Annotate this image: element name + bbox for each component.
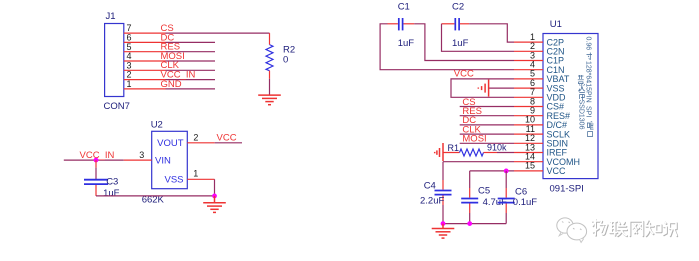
J1 pin 1 stub [124, 88, 166, 90]
wire C2 right to U1 pin1 [469, 24, 514, 42]
U1 pin 13 stub [514, 152, 543, 154]
J1 pin 3 stub [124, 69, 166, 71]
ground symbol below U2 [203, 196, 226, 213]
regulator U2 body [152, 131, 188, 188]
svg-text:910k: 910k [487, 143, 507, 153]
wire net DC to U1 [460, 124, 514, 126]
resistor R1 [460, 149, 498, 156]
capacitor C6 [498, 171, 515, 224]
junction dot at rail C4 [441, 221, 446, 226]
svg-text:0.96: 0.96 [585, 37, 592, 51]
svg-text:CON7: CON7 [104, 101, 130, 112]
capacitor C2 [442, 18, 470, 30]
svg-text:2.2uF: 2.2uF [420, 196, 444, 207]
svg-text:3: 3 [139, 150, 144, 160]
ground symbol at U1 VSS (pointing left) [478, 80, 488, 97]
svg-text:GND: GND [161, 79, 182, 90]
U2 pin 2 stub [187, 142, 214, 144]
U1 pin 15 stub [514, 170, 543, 172]
svg-text:VCC: VCC [547, 166, 567, 176]
wire ground rail under C4 C5 C6 [443, 223, 506, 225]
junction dot at C6 top [504, 169, 509, 174]
wire U1 VCC to C5 and C6 [470, 170, 514, 172]
svg-text:VSS: VSS [164, 175, 183, 186]
wire net CS from J1 pin7 to R2 [166, 32, 270, 34]
U2 pin 1 stub [187, 178, 214, 180]
wire C3 bottom to VSS junction [96, 195, 215, 197]
U1 pin 11 stub [514, 133, 543, 135]
svg-text:C3: C3 [106, 176, 118, 187]
U1 pin 1 stub [514, 41, 543, 43]
wire net VCC to U1 VBAT and VDD [451, 79, 514, 97]
wire R2 to ground [269, 79, 271, 95]
junction dot at VSS ground node [212, 194, 217, 199]
svg-text:2: 2 [193, 133, 198, 143]
wire net MOSI [166, 60, 216, 62]
watermark text 物联网知识 (drawn as vector strokes) [593, 220, 678, 236]
U1 pin 14 stub [514, 161, 543, 163]
svg-text:1: 1 [193, 169, 198, 179]
wire net VCC at U2 output [215, 142, 242, 144]
wire net VCC_IN [166, 79, 216, 81]
wire U1 VSS to ground [489, 87, 514, 89]
U1 pin 8 stub [514, 106, 543, 108]
junction dot at C3 top [94, 158, 99, 163]
wire net RES to U1 [460, 115, 514, 117]
ground symbol at R1 (pointing left) [435, 143, 443, 161]
wire R1 to U1 IREF [497, 152, 514, 154]
svg-text:MOSI: MOSI [462, 134, 486, 145]
svg-text:SSD1306: SSD1306 [578, 100, 585, 130]
svg-text:C1: C1 [398, 1, 410, 12]
wire net MOSI to U1 [460, 142, 514, 144]
wire C2 left to U1 pin2 [442, 24, 515, 52]
U2 pin 3 stub [124, 159, 152, 161]
svg-text:R1: R1 [447, 143, 459, 153]
U1 comment text line 2 [578, 75, 586, 130]
svg-text:1uF: 1uF [398, 38, 415, 49]
wire net DC [166, 41, 216, 43]
J1 pin 5 stub [124, 51, 166, 53]
wire U1 VCOMH to C4 [443, 161, 514, 163]
svg-text:1uF: 1uF [103, 188, 120, 199]
U1 pin 2 stub [514, 50, 543, 52]
watermark chat-bubbles icon [557, 218, 587, 243]
connector J1 body [105, 24, 124, 97]
capacitor C4 [435, 162, 452, 224]
svg-text:15: 15 [525, 161, 535, 171]
svg-text:C5: C5 [478, 186, 490, 197]
svg-text:0.1uF: 0.1uF [513, 197, 537, 208]
svg-text:C6: C6 [515, 187, 527, 198]
J1 pin 6 stub [124, 41, 166, 43]
svg-text:1uF: 1uF [452, 38, 469, 49]
J1 pin 2 stub [124, 79, 166, 81]
IC U1 body [543, 34, 598, 179]
ground symbol below rail [432, 224, 455, 239]
wire net RES [166, 51, 216, 53]
wire net GND [166, 88, 216, 90]
svg-text:VCC: VCC [217, 133, 237, 144]
capacitor C1 [388, 18, 415, 30]
J1 pin 7 stub [124, 32, 166, 34]
svg-text:U2: U2 [151, 120, 163, 131]
U1 comment text line 1 [585, 37, 594, 137]
svg-text:C4: C4 [424, 181, 436, 192]
U1 pin 6 stub [514, 87, 543, 89]
ground symbol below R2 [258, 95, 281, 105]
U1 pin 12 stub [514, 142, 543, 144]
J1 pin 4 stub [124, 60, 166, 62]
U1 pin 10 stub [514, 124, 543, 126]
svg-text:VOUT: VOUT [157, 138, 184, 149]
svg-text:0: 0 [283, 55, 288, 66]
svg-text:VIN: VIN [155, 156, 171, 167]
capacitor C5 [461, 171, 478, 224]
svg-text:J1: J1 [106, 11, 116, 22]
U1 pin 3 stub [514, 60, 543, 62]
U1 pin 7 stub [514, 96, 543, 98]
U1 pin 5 stub [514, 78, 543, 80]
wire ground to R1 [443, 152, 460, 154]
svg-text:091-SPI: 091-SPI [550, 184, 584, 195]
resistor R2 [266, 33, 273, 79]
wire net CLK [166, 69, 216, 71]
wire net CS to U1 [460, 106, 514, 108]
svg-text:U1: U1 [550, 19, 562, 30]
svg-text:VCC: VCC [454, 69, 474, 80]
U1 pin 4 stub [514, 69, 543, 71]
wire C1 right to U1 pin3 [414, 24, 514, 61]
svg-text:1: 1 [127, 79, 132, 89]
wire U2 VSS down to ground rail [214, 179, 216, 196]
U1 pin 9 stub [514, 115, 543, 117]
svg-text:SPI: SPI [585, 106, 592, 117]
wire net VCC_IN to U2 VIN [64, 159, 124, 161]
junction dot at rail C5 [467, 221, 472, 226]
capacitor C3 [84, 160, 108, 196]
wire C1 left to U1 pin4 [380, 24, 514, 70]
wire net CLK to U1 [460, 133, 514, 135]
svg-text:C2: C2 [452, 1, 464, 12]
svg-text:128*6415PIN: 128*6415PIN [585, 61, 592, 103]
